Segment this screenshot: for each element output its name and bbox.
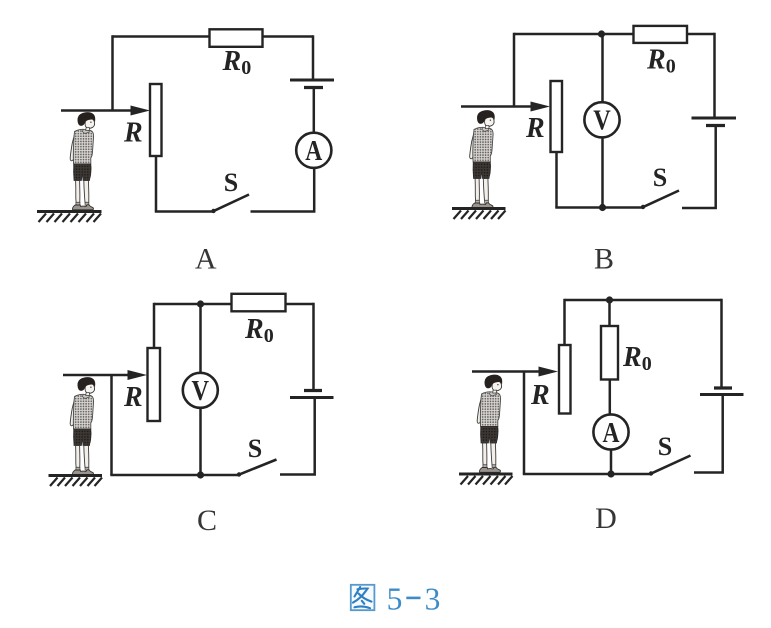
svg-text:A: A [305, 135, 322, 167]
voltmeter branch wire upper (B) [601, 34, 604, 103]
battery (circuit A) [290, 80, 334, 88]
junction (top node of B) [598, 30, 605, 37]
switch S (circuit B) [641, 191, 679, 210]
wire: battery to top (D) [720, 299, 723, 388]
wire: battery to top (B) [713, 33, 716, 118]
wire: slider down to bottom (D) [523, 372, 526, 475]
wire: top wire of B [514, 33, 634, 36]
wire: top wire of C [154, 303, 314, 306]
slider arrow into R (C) [63, 370, 147, 380]
junction (bottom node of B) [599, 204, 606, 211]
resistor R (rheostat, circuit D) [559, 345, 571, 414]
ground hatching (D) [459, 474, 513, 485]
wire: R0 to right corner (B) [687, 33, 715, 36]
resistor R (rheostat, circuit A) [150, 84, 162, 156]
wire: top wire of D [565, 299, 722, 302]
svg-text:A: A [603, 417, 620, 449]
svg-text:S: S [248, 434, 262, 463]
ammeter A (circuit D) [593, 414, 628, 449]
wire: junction down to R0 (D) [608, 300, 611, 326]
svg-text:D: D [595, 502, 617, 535]
slider arrow into R (D) [472, 367, 558, 377]
switch S (circuit C) [237, 460, 277, 477]
wire: battery to top wire (A) [312, 35, 315, 80]
wire: bottom-left segment (A) [155, 210, 213, 213]
junction (bottom node of D) [607, 470, 614, 477]
battery (circuit D) [700, 388, 744, 395]
battery (circuit C) [290, 391, 334, 398]
wire: left vertical wire of B [513, 33, 516, 107]
wire: R top to top wire (D) [563, 299, 566, 345]
wire: ammeter to bottom (D) [610, 450, 613, 474]
wire: top wire of A [113, 35, 314, 38]
svg-text:R: R [525, 113, 545, 144]
ground hatching (B) [452, 209, 506, 220]
svg-text:S: S [658, 432, 672, 461]
switch S (circuit A) [211, 195, 249, 214]
wire: bottom-left segment (C) [110, 474, 238, 477]
svg-text:V: V [593, 105, 611, 137]
svg-text:R: R [530, 380, 550, 411]
svg-text:V: V [192, 375, 210, 407]
resistor R0 (circuit B) [634, 26, 688, 43]
voltmeter branch wire lower (B) [601, 138, 604, 208]
battery (circuit B) [692, 118, 737, 126]
svg-text:R0: R0 [244, 314, 274, 347]
svg-text:R: R [123, 118, 143, 149]
wire: slider down to bottom (C) [110, 375, 113, 475]
wire: bottom-left segment (B) [555, 206, 642, 209]
resistor R0 (circuit D, vertical) [601, 326, 618, 380]
junction (bottom node of C) [197, 471, 204, 478]
resistor R0 (circuit A) [210, 29, 263, 47]
svg-text:R0: R0 [646, 45, 676, 78]
wire: below R to bottom (B) [555, 152, 558, 208]
svg-text:A: A [195, 243, 217, 276]
svg-text:R: R [123, 382, 143, 413]
junction (top node of D) [606, 296, 613, 303]
svg-text:B: B [594, 243, 614, 276]
wire: R top to top wire (C) [153, 303, 156, 348]
svg-text:R0: R0 [622, 342, 652, 375]
wire: bottom-right segment (B) [682, 126, 716, 209]
svg-text:R0: R0 [222, 46, 252, 79]
slider arrow into R (B) [461, 102, 550, 112]
ammeter A (circuit A) [296, 133, 331, 168]
figure caption 图 5-3 [351, 582, 441, 617]
svg-text:S: S [224, 168, 238, 197]
wire: battery to top (C) [312, 303, 315, 391]
resistor R (rheostat, circuit B) [551, 81, 563, 152]
resistor R0 (circuit C) [232, 294, 286, 312]
resistor R (rheostat, circuit C) [148, 348, 161, 421]
svg-text:3: 3 [425, 582, 441, 617]
wire: bottom-right segment (D) [694, 395, 723, 473]
ground hatching (A) [37, 212, 102, 223]
wire: ammeter top to battery (A) [313, 88, 316, 133]
wire: R0 to ammeter (D) [609, 380, 612, 415]
voltmeter branch wire upper (C) [199, 304, 202, 373]
svg-text:5: 5 [387, 582, 403, 617]
wire: bottom-right segment (C) [280, 398, 315, 475]
wire: below R to bottom (A) [155, 156, 158, 212]
junction (top node of C) [197, 300, 204, 307]
svg-text:C: C [197, 504, 217, 537]
voltmeter branch wire lower (C) [199, 408, 202, 475]
wire: left vertical wire of A [111, 35, 114, 110]
switch S (circuit D) [649, 456, 691, 476]
ground hatching (C) [49, 476, 103, 487]
voltmeter V (circuit C) [183, 373, 218, 408]
person (circuit B) [470, 110, 495, 208]
voltmeter V (circuit B) [584, 102, 619, 137]
person (circuit D) [477, 375, 502, 473]
svg-text:S: S [653, 163, 667, 192]
person (circuit C) [70, 377, 95, 475]
wire: bottom-left segment (D) [523, 473, 651, 476]
wire: bottom-right segment (A) [251, 167, 315, 212]
slider arrow into R (A) [61, 106, 150, 116]
person (circuit A) [70, 112, 95, 210]
